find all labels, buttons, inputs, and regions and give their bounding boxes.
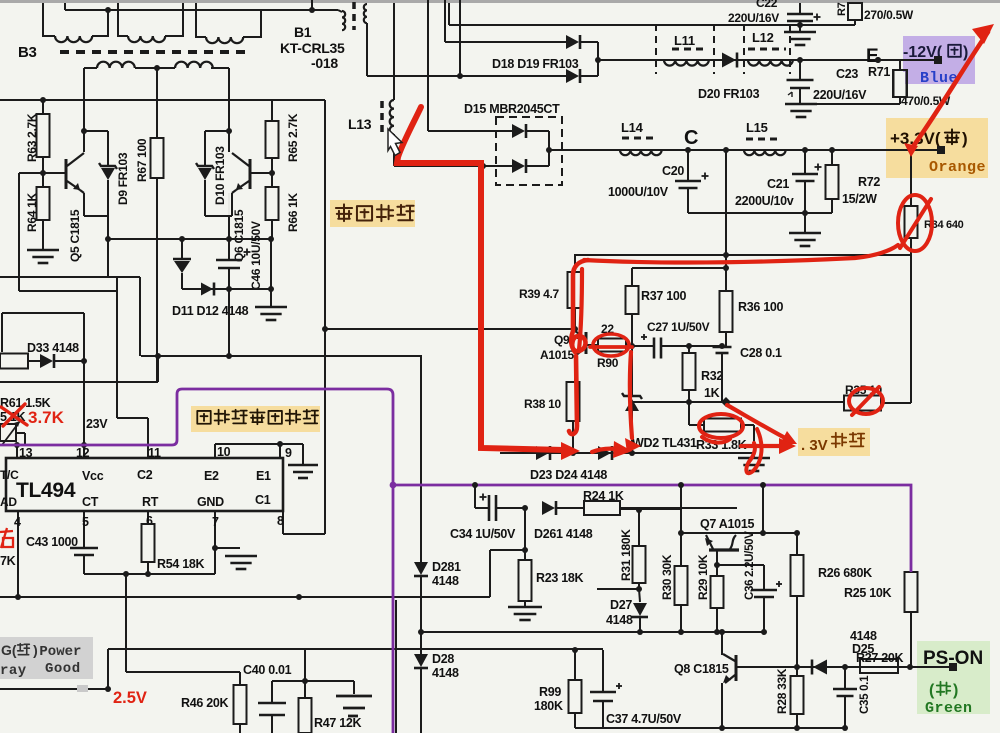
wire y25 aux rail <box>449 24 855 26</box>
pin 6 stub <box>147 511 149 524</box>
svg-text:E2: E2 <box>204 469 219 483</box>
svg-text:220U/16V: 220U/16V <box>813 88 867 102</box>
svg-text:. 3V: . 3V <box>801 437 828 454</box>
svg-text:Good: Good <box>45 661 81 677</box>
resistor R54 <box>142 524 155 562</box>
svg-text:6: 6 <box>146 514 153 528</box>
wire bus y329 <box>325 328 575 330</box>
wire feedback y453 <box>500 452 754 454</box>
junction dot bus-pin8 line <box>322 326 328 332</box>
svg-text:10: 10 <box>217 445 231 459</box>
svg-text:Q9: Q9 <box>554 333 570 347</box>
svg-text:A1015: A1015 <box>540 348 574 362</box>
svg-text:R25 10K: R25 10K <box>844 586 892 600</box>
svg-text:E1: E1 <box>256 469 271 483</box>
svg-text:C21: C21 <box>767 177 789 191</box>
svg-text:E: E <box>866 46 878 67</box>
resistor R72 <box>831 150 833 165</box>
junction dot C23 <box>797 57 803 63</box>
resistor R37 <box>631 268 633 286</box>
transformer B1 primary <box>338 10 342 12</box>
inductor L14 <box>620 150 662 155</box>
diode D28 <box>420 632 422 654</box>
wire 2.5V branch <box>107 649 109 689</box>
capacitor C28 <box>713 346 732 349</box>
svg-text:4: 4 <box>14 515 21 529</box>
svg-text:C28 0.1: C28 0.1 <box>740 346 782 360</box>
label 3.3V-wenya (3.3V regulation) <box>798 428 870 456</box>
svg-text:R28 33K: R28 33K <box>775 668 789 714</box>
ground R23 <box>508 606 542 609</box>
svg-text:2.5V: 2.5V <box>113 689 147 707</box>
svg-text:C36 2.2U/50V: C36 2.2U/50V <box>744 531 756 600</box>
wire D10 top <box>205 130 229 132</box>
diode D24 <box>598 446 611 460</box>
svg-text:)Power: )Power <box>31 644 81 660</box>
inductor L11 dashed box <box>655 24 657 74</box>
svg-text:1K: 1K <box>704 386 720 400</box>
svg-text:R23 18K: R23 18K <box>536 571 584 585</box>
wire base link y291 <box>19 290 117 292</box>
capacitor C37 <box>602 650 604 692</box>
label zhendang-maichong-kongzhi (osc & pulse control) <box>191 406 320 432</box>
pin 8 stub <box>282 511 284 534</box>
junction dot x725-y255 <box>723 252 729 258</box>
wire -12V into box overlay <box>878 59 942 61</box>
terminal -12V <box>934 56 942 64</box>
junction dot gnd node y289 <box>268 286 274 292</box>
wire pin11 feedback x117 <box>116 277 118 418</box>
rectifier D15 dashed box <box>496 117 562 185</box>
junction dot pin9 bracket <box>277 441 283 447</box>
svg-text:9: 9 <box>285 446 292 460</box>
svg-text:C23: C23 <box>836 67 858 81</box>
junction dot R38 bottom <box>570 450 576 456</box>
diode D25 <box>813 660 827 675</box>
capacitor C27 <box>632 345 654 347</box>
resistor R70 <box>848 3 862 20</box>
svg-text:R27 20K: R27 20K <box>856 651 904 665</box>
transistor Q9 <box>585 332 588 354</box>
svg-text:5: 5 <box>82 515 89 529</box>
svg-text:R38 10: R38 10 <box>524 397 562 411</box>
svg-text:R71: R71 <box>868 65 890 79</box>
junction dot x681-y533 <box>678 530 684 536</box>
wire y681 C40/R47 <box>272 680 354 682</box>
label PS-ON green <box>917 641 990 714</box>
wire supply rail y100 <box>0 99 325 101</box>
svg-text:): ) <box>963 44 968 61</box>
svg-text:Vcc: Vcc <box>82 469 104 483</box>
diode D261 <box>542 501 555 515</box>
wire bus y632 <box>421 631 764 633</box>
ground C21 <box>804 213 806 233</box>
svg-text:WD2 TL431: WD2 TL431 <box>632 436 697 450</box>
resistor R27 <box>860 659 898 673</box>
junction dot rectifier -12V <box>595 57 601 63</box>
wire R67 bottom rail y382 <box>0 381 158 383</box>
diode D15-a <box>512 124 525 138</box>
red arrow diamond to label <box>727 405 787 439</box>
junction dot R31 top <box>636 507 642 513</box>
svg-text:D10 FR103: D10 FR103 <box>213 146 227 205</box>
wire vertical x428 to D15 <box>427 0 429 131</box>
inductor L15 <box>744 150 786 155</box>
junction dot D33-Vcc <box>81 358 87 364</box>
transformer B1 core <box>352 2 356 30</box>
wire purple pin13/pin11 net <box>0 389 393 733</box>
label -12V blue <box>903 36 975 84</box>
capacitor C43 <box>70 547 98 550</box>
ground pin7 <box>225 555 257 558</box>
junction dot C46 top <box>226 236 232 242</box>
svg-text:): ) <box>962 129 968 148</box>
capacitor C22 <box>787 13 813 16</box>
junction dot purple x680 <box>678 482 684 488</box>
junction dot C27-R32 <box>686 343 692 349</box>
junction dot R28 top <box>794 664 800 670</box>
ground push-pull <box>270 289 272 306</box>
resistor R24 <box>584 501 620 515</box>
transformer B3 primary winding 2 <box>118 3 128 36</box>
wire L13 to D15 lower <box>394 165 512 167</box>
svg-text:C27 1U/50V: C27 1U/50V <box>647 320 710 334</box>
svg-text:D28: D28 <box>432 652 454 666</box>
svg-text:R46 20K: R46 20K <box>181 696 229 710</box>
junction dot purple x765 <box>760 482 766 488</box>
resistor R99 <box>574 650 576 680</box>
wire pin7 ground branch <box>215 547 240 549</box>
junction dot y76 <box>457 73 463 79</box>
svg-text:C35 0.1: C35 0.1 <box>859 675 871 714</box>
svg-text:Green: Green <box>925 700 973 717</box>
red X over 5.1K <box>1 407 27 425</box>
svg-text:C40 0.01: C40 0.01 <box>243 663 292 677</box>
transistor Q6 <box>249 159 252 189</box>
resistor R47 <box>304 681 306 698</box>
svg-text:D33 4148: D33 4148 <box>27 341 79 355</box>
resistor R90 <box>598 339 626 352</box>
junction dot pin4-y597 <box>15 594 21 600</box>
svg-text:R90: R90 <box>597 356 619 370</box>
junction dot pin7 gnd branch <box>212 545 218 551</box>
junction dot y25 <box>797 22 803 28</box>
svg-text:AD: AD <box>0 495 17 509</box>
svg-text:G(: G( <box>1 642 17 658</box>
svg-text:-018: -018 <box>311 55 338 71</box>
junction dot rail-R63 <box>40 97 46 103</box>
svg-text:L11: L11 <box>674 33 695 48</box>
wire B3 secondary left leg / Q5 collector <box>83 68 85 152</box>
junction dot R39-Q9 <box>572 326 578 332</box>
svg-text:R26 680K: R26 680K <box>818 566 872 580</box>
diode D12 on wire y289 <box>182 288 271 290</box>
wire PS-ON into box overlay <box>917 666 949 668</box>
svg-text:C: C <box>684 127 698 149</box>
svg-text:L15: L15 <box>746 120 768 135</box>
wire y509 to Q7 column <box>620 508 681 510</box>
junction dot R28 bottom <box>794 725 800 731</box>
svg-text:Q6 C1815: Q6 C1815 <box>232 209 246 262</box>
terminal PS-ON <box>949 663 957 671</box>
capacitor C23 <box>799 60 801 79</box>
svg-text:R63 2.7K: R63 2.7K <box>25 113 39 162</box>
capacitor C36 <box>763 565 765 589</box>
svg-text:R72: R72 <box>858 175 880 189</box>
svg-text:D281: D281 <box>432 560 461 574</box>
wire D281 line <box>420 356 422 562</box>
junction dot Q7 collector <box>714 562 720 568</box>
svg-text:R65 2.7K: R65 2.7K <box>286 113 300 162</box>
pin 10 stub <box>214 444 216 458</box>
junction dot C21 <box>802 147 808 153</box>
junction dot R31 bottom <box>636 586 642 592</box>
resistor R61 <box>0 354 28 369</box>
resistor R71 <box>899 60 901 70</box>
transformer B1 secondary <box>364 4 367 23</box>
transformer B3 primary winding 1 <box>43 3 55 36</box>
wire C34 drop <box>474 485 476 508</box>
red annotation through R90 <box>590 345 632 349</box>
junction dot D281-y632 <box>418 629 424 635</box>
resistor R63 <box>42 100 44 114</box>
svg-text:4148: 4148 <box>432 574 459 588</box>
wire y533 <box>681 532 797 534</box>
junction dot purple x475 <box>472 482 478 488</box>
svg-text:4148: 4148 <box>432 666 459 680</box>
junction dot y533-R26 <box>794 530 800 536</box>
svg-text:R36 100: R36 100 <box>738 300 784 314</box>
inductor L11 <box>664 60 709 66</box>
diode D10 <box>204 131 206 166</box>
red arrowhead at D23 <box>561 442 580 460</box>
diode D20 <box>722 53 736 68</box>
wire C22 top <box>799 3 801 13</box>
junction dot R36-C28 <box>719 343 725 349</box>
red arrow to top right corner <box>912 32 988 148</box>
wire y590 link <box>597 588 639 590</box>
inductor L12 <box>748 60 793 66</box>
svg-text:): ) <box>953 682 958 699</box>
svg-text:TL494: TL494 <box>16 479 76 502</box>
junction dot R54 bottom <box>145 571 151 577</box>
svg-text:C43 1000: C43 1000 <box>26 535 78 549</box>
resistor R65 <box>271 100 273 121</box>
svg-text:R24 1K: R24 1K <box>583 489 624 503</box>
junction dot D15 out <box>546 147 552 153</box>
junction dot C36 bottom <box>761 629 767 635</box>
resistor R66 <box>271 173 273 187</box>
ground under C22 <box>799 25 801 32</box>
resistor R29 <box>716 565 718 576</box>
capacitor C21 <box>804 150 806 174</box>
red circle around R35 <box>849 388 883 414</box>
svg-text:7: 7 <box>212 515 219 529</box>
svg-text:R37 100: R37 100 <box>641 289 687 303</box>
svg-text:270/0.5W: 270/0.5W <box>864 8 914 22</box>
svg-text:C1: C1 <box>255 493 271 507</box>
junction dot R65-R66-base <box>269 170 275 176</box>
wire gnd bus y213 <box>688 212 832 214</box>
diode D33 <box>28 360 40 362</box>
ground R64 <box>27 249 59 252</box>
junction dot C46 bottom <box>226 286 232 292</box>
ground PG rail <box>353 681 355 694</box>
svg-text:R31 180K: R31 180K <box>619 529 633 581</box>
svg-text:C37 4.7U/50V: C37 4.7U/50V <box>606 712 682 726</box>
svg-text:13: 13 <box>19 446 33 460</box>
junction dot Q5 collector-D9 <box>81 128 87 134</box>
wire black beside purple <box>395 600 397 733</box>
junction dot R32 bottom <box>686 399 692 405</box>
resistor R64 <box>42 173 44 187</box>
label G gray power good <box>0 637 93 679</box>
svg-text:C22: C22 <box>756 0 778 10</box>
transformer B3 secondary winding right <box>157 67 175 69</box>
wire feedback y277 <box>0 276 140 278</box>
svg-text:4148: 4148 <box>850 629 877 643</box>
wire 2.5V stub to left <box>0 688 108 690</box>
pin 11 stub <box>147 418 149 458</box>
red annotation horizontal to R34 <box>584 245 898 262</box>
wire vertical x445 to y42 <box>444 0 446 42</box>
svg-text:8: 8 <box>277 514 284 528</box>
svg-text:D20 FR103: D20 FR103 <box>698 87 760 101</box>
red annotation over D24 <box>592 449 616 452</box>
wire x126 sense line <box>125 574 127 672</box>
capacitor C40 <box>271 681 273 703</box>
wire Q6 emitter leg <box>228 216 230 239</box>
junction dot y355-x229 <box>226 353 232 359</box>
junction diamond C28 bottom <box>721 397 731 407</box>
wire purple PS-ON net <box>393 485 911 572</box>
svg-text:C46 10U/50V: C46 10U/50V <box>249 221 263 290</box>
resistor R36 <box>725 268 727 291</box>
junction dot x126 top <box>123 571 129 577</box>
junction dot Q6 collector-D10 <box>226 128 232 134</box>
junction dot Q8 emitter <box>719 725 725 731</box>
red scribble TL431 ground <box>746 429 761 473</box>
svg-text:R7: R7 <box>836 2 848 16</box>
junction dot R37-C27-TL431 <box>629 343 635 349</box>
wire y355 rail <box>141 355 422 357</box>
junction dot x765-y533 <box>760 530 766 536</box>
wire y574 <box>84 573 215 575</box>
junction dot D9-y239 <box>105 236 111 242</box>
ground C23/R71 <box>785 103 817 106</box>
junction dot R25 bottom <box>907 664 913 670</box>
wire R23 top link <box>524 508 526 550</box>
wire -12V rail y60 <box>598 59 934 61</box>
svg-text:D261 4148: D261 4148 <box>534 527 593 541</box>
terminal -12V overlay <box>934 56 942 64</box>
node junction dot top rail right <box>309 7 315 13</box>
pin 13 stub <box>16 445 18 458</box>
wire Vcc x84 <box>83 313 85 458</box>
trimmer R <box>0 424 16 441</box>
wire B3 secondary right leg / Q6 collector <box>228 68 230 152</box>
svg-text:L13: L13 <box>348 116 372 132</box>
capacitor C46 <box>228 239 230 260</box>
svg-text:D9 FR103: D9 FR103 <box>116 152 130 205</box>
ground pin9/pin10 <box>288 464 318 467</box>
diode D9 <box>107 131 109 166</box>
svg-text:180K: 180K <box>534 699 563 713</box>
wire x725 down to 3.3V circuit <box>725 150 727 268</box>
svg-text:3.7K: 3.7K <box>28 408 65 427</box>
transformer B3 primary winding 3 <box>196 3 206 37</box>
transformer B3 secondary center tap dot <box>154 65 160 71</box>
wire y150 3.3V rail <box>549 149 937 151</box>
diode D18 <box>566 35 579 49</box>
pin 4 stub <box>17 511 19 597</box>
wire sense rail y255 <box>574 254 905 256</box>
svg-text:L14: L14 <box>621 120 644 135</box>
top scan edge strip <box>0 0 1000 3</box>
transistor Q8 <box>721 632 723 655</box>
svg-text:R30 30K: R30 30K <box>660 554 674 600</box>
resistor R67 <box>156 68 158 138</box>
svg-text:7K: 7K <box>0 554 16 568</box>
wire y672 PG rail <box>126 671 240 673</box>
svg-text:R47 12K: R47 12K <box>314 716 362 730</box>
wire R66-line continues <box>270 239 272 289</box>
svg-text:Q7 A1015: Q7 A1015 <box>700 517 754 531</box>
red annotation path from L13 <box>397 107 564 450</box>
ground TL431 <box>738 457 770 460</box>
shunt reg WD2 TL431 <box>631 346 633 396</box>
wire R37 top y268 <box>632 267 726 269</box>
svg-text:R66 1K: R66 1K <box>286 192 300 232</box>
wire Q5 emitter <box>83 193 85 216</box>
terminal +3.3V <box>937 146 945 154</box>
wire collector to C36 <box>717 564 764 566</box>
svg-text:12: 12 <box>76 446 90 460</box>
capacitor C20 <box>687 150 689 181</box>
pin 9 stub <box>279 444 281 458</box>
svg-text:15/2W: 15/2W <box>842 192 877 206</box>
wire x765 <box>762 485 764 533</box>
svg-text:R29 10K: R29 10K <box>696 554 710 600</box>
svg-text:GND: GND <box>197 495 224 509</box>
junction node C dot <box>685 147 691 153</box>
svg-text:Q5 C1815: Q5 C1815 <box>68 209 82 262</box>
wire bus y597 <box>0 596 490 598</box>
transformer B3 primary top rail wire <box>65 9 338 11</box>
wire pin9 to ground <box>280 443 303 445</box>
svg-text:D18 D19 FR103: D18 D19 FR103 <box>492 57 579 71</box>
svg-text:4148: 4148 <box>606 613 633 627</box>
wire y76 to D19 <box>367 75 566 77</box>
junction dot 2.5V node <box>105 686 111 692</box>
inductor L13 <box>393 3 395 100</box>
wire Q9 collector down <box>574 356 576 382</box>
wire Q6 emitter <box>231 193 233 216</box>
junction dot y355-R67 <box>155 353 161 359</box>
pin 5 stub <box>83 511 85 548</box>
terminal gray 2.5V <box>77 685 88 692</box>
junction dot L15-R36 <box>723 147 729 153</box>
svg-text:C2: C2 <box>137 468 153 482</box>
svg-text:RT: RT <box>142 495 159 509</box>
diode D281 <box>414 562 428 575</box>
svg-text:11: 11 <box>148 446 161 460</box>
resistor R39 <box>574 255 576 272</box>
wire bottom rail y728 <box>575 727 845 729</box>
svg-text:Orange: Orange <box>929 159 986 176</box>
capacitor C34 <box>488 495 491 521</box>
svg-text:(: ( <box>929 682 935 699</box>
